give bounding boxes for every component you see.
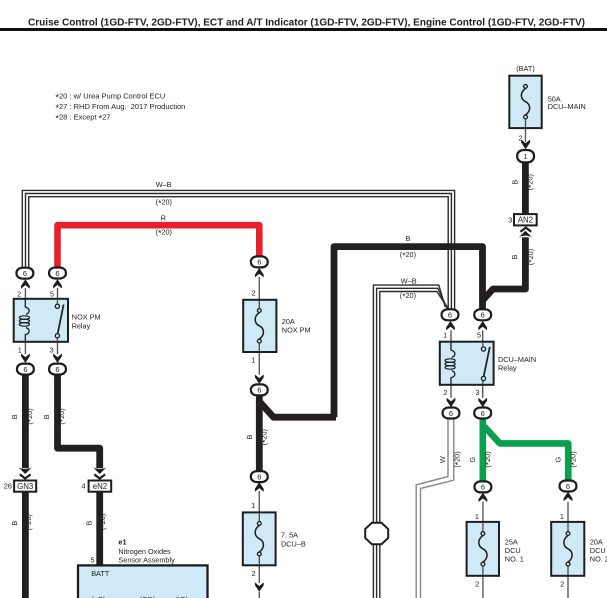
svg-text:3: 3 [475,388,479,397]
connector eN2 [89,481,112,492]
connector oval 6 above NOX PM pin2 [17,268,34,289]
arrow below 7.5A DCU-B fuse [255,582,264,591]
wire B: NOX PM relay pin1 oval down to GN3 [22,374,29,468]
shield octagon on W-B branch [365,523,388,544]
svg-text:(*20): (*20) [483,451,494,467]
svg-text:3: 3 [50,346,54,355]
connector oval 6 above NOX PM pin5 [49,268,66,289]
svg-text:3: 3 [508,215,512,224]
svg-text:B: B [10,521,19,526]
connector oval 6 above 25A DCU NO.1 fuse [475,481,492,502]
svg-text:6: 6 [257,258,261,267]
connector oval 6 below DCU-MAIN pin3 [474,398,491,419]
svg-text:(BAT): (BAT) [516,64,535,73]
svg-text:2: 2 [252,569,256,578]
svg-text:6: 6 [23,365,27,374]
switch [56,299,58,304]
svg-text:B: B [42,414,51,419]
connector oval 1 below 50A fuse [517,140,534,163]
svg-text:1: 1 [524,152,528,161]
fuse 50A DCU-MAIN (BAT) box [509,76,541,129]
svg-text:(*20): (*20) [156,228,172,239]
connector oval 6 at red wire to 20A NOX PM fuse [251,256,268,277]
svg-text:Nitrogen Oxides: Nitrogen Oxides [118,547,171,556]
svg-text:2: 2 [560,580,564,589]
double chevron into AN2 from below [519,228,533,238]
svg-text:W–B: W–B [401,276,417,285]
wire B: 50A fuse oval down to AN2 connector [522,162,529,215]
svg-text:6: 6 [481,483,485,492]
svg-text:5: 5 [91,555,95,564]
wire W-B: NOX PM relay pin2 to DCU-MAIN relay pin1 (triple line loop) [22,190,454,309]
svg-text:(*20): (*20) [452,451,463,467]
wire: 7.5A DCU-B fuse bottom continuation [258,592,260,598]
svg-text:B: B [85,520,94,525]
connector oval 6 above DCU-MAIN pin1 [442,309,459,330]
svg-text:1: 1 [475,512,479,521]
svg-text:B: B [405,234,410,243]
svg-text:6: 6 [481,409,485,418]
svg-text:Relay: Relay [498,363,517,372]
svg-text:6: 6 [55,365,59,374]
wire: 20A DCU NO.2 fuse pin 1 lead [567,502,569,523]
svg-text:6: 6 [566,482,570,491]
svg-text:B: B [245,434,254,439]
svg-text:(*20): (*20) [98,514,109,530]
svg-text:2: 2 [443,388,447,397]
svg-text:NOX PM: NOX PM [282,325,311,334]
svg-text:2: 2 [475,580,479,589]
svg-text:1: 1 [560,512,564,521]
title rule [0,28,607,31]
switch [482,342,484,347]
svg-text:DCU–MAIN: DCU–MAIN [548,102,586,111]
svg-text:eN2: eN2 [93,482,107,491]
svg-text:2: 2 [519,134,523,143]
svg-text:NOX PM: NOX PM [72,313,101,322]
svg-text:G: G [468,456,477,462]
svg-text:W–B: W–B [156,180,172,189]
svg-text:e1: e1 [118,537,126,546]
wire: NOX PM relay pin 5 lead [57,288,59,300]
double chevron into eN2 from above [93,467,107,478]
svg-text:6: 6 [448,311,452,320]
connector GN3 [14,481,36,492]
connector oval 6 below DCU-MAIN pin2 [443,398,460,419]
svg-text:(*20): (*20) [568,451,579,467]
wire: DCU-MAIN relay pin 5 lead [482,330,484,342]
svg-text:2: 2 [252,288,256,297]
svg-text:1: 1 [251,356,255,365]
svg-text:(*20): (*20) [260,429,271,445]
fuse 20A DCU NO.2 box [551,522,584,576]
svg-text:BATT: BATT [91,569,110,578]
svg-text:26: 26 [4,482,12,491]
wire: DCU-MAIN relay pin 1 lead [450,330,452,342]
svg-text:6: 6 [257,472,261,481]
connector oval 6 below NOX PM pin1 [17,354,34,375]
svg-text:6: 6 [55,269,59,278]
svg-text:4: 4 [81,482,85,491]
svg-text:6: 6 [257,386,261,395]
svg-text:G: G [554,456,563,462]
wire: NOX PM relay pin 3 lead [57,341,59,354]
wire G: green branch over to 20A DCU NO.2 [484,427,568,481]
relay NOX PM box [14,299,68,342]
fuse 20A NOX PM box [243,300,276,352]
fuse 25A DCU NO.1 box [467,522,499,576]
svg-text:(*20): (*20) [400,250,416,261]
svg-text:6: 6 [23,269,27,278]
wire: 25A DCU NO.1 fuse pin 1 lead [482,502,484,523]
wire: 50A fuse pin 2 lead [525,128,527,142]
svg-text:6: 6 [449,409,453,418]
connector oval 6 above 20A DCU NO.2 fuse [560,481,577,502]
svg-text:5: 5 [477,330,481,339]
wire R: NOX PM relay pin5 to 20A NOX PM fuse (red) [58,225,260,268]
wire B: thick black bus from junction up across to DCU-MAIN pin5 oval [334,247,483,418]
svg-text:B: B [510,180,519,185]
svg-text:1: 1 [443,330,447,339]
wire: DCU-MAIN relay pin 2 lead [450,384,452,398]
wire B: eN2 down to BATT terminal of Nitrogen Oxides Sensor [96,492,103,567]
svg-text:B: B [510,254,519,259]
svg-text:1: 1 [251,501,255,510]
svg-text:Sensor Assembly: Sensor Assembly [118,556,175,565]
connector oval 6 above 7.5A DCU-B fuse [251,471,268,492]
connector oval 6 below 20A NOX PM fuse [251,375,268,396]
wire: 20A DCU NO.2 fuse pin 2 lead [567,575,569,598]
wire B: GN3 down to page bottom [22,492,29,598]
connector oval 6 below NOX PM pin3 [49,354,66,375]
wire: 7.5A DCU-B fuse pin 2 lead [258,565,260,583]
svg-text:B: B [10,414,19,419]
svg-text:(*20): (*20) [526,174,537,190]
wire: 25A DCU NO.1 fuse pin 2 lead [482,575,484,598]
svg-text:NO. 1: NO. 1 [505,555,524,564]
svg-text:DCU–B: DCU–B [281,539,306,548]
relay DCU-MAIN box [440,342,494,385]
wire B: AN2 connector down and over to DCU-MAIN pin5 [483,237,526,300]
svg-text:Relay: Relay [72,321,91,330]
svg-text:AN2: AN2 [518,216,533,225]
wire: 20A NOX PM fuse pin 1 lead [258,352,260,375]
connector oval 6 above DCU-MAIN pin5 [474,309,491,330]
svg-text:(*20): (*20) [526,249,537,265]
connector AN2 [514,214,537,225]
svg-text:(*20): (*20) [400,291,416,302]
coil [451,342,455,357]
wire: DCU-MAIN relay pin 3 lead [482,384,484,398]
component e1 Nitrogen Oxides Sensor Assembly (BATT box) [78,565,208,598]
double chevron into GN3 from above [18,467,32,478]
wire: NOX PM relay pin 2 lead [24,288,26,300]
svg-text:6: 6 [481,311,485,320]
wire: 7.5A DCU-B fuse pin 1 lead [258,491,260,513]
svg-text:NO. 2: NO. 2 [590,555,607,564]
svg-text:(*20): (*20) [156,197,172,208]
wire B: NOX PM relay pin3 oval down, jog right, to eN2 [58,374,100,468]
svg-text:R: R [161,214,166,223]
wire W-B: shielded branch from DCU-MAIN pin1 down through octagon (triple line) [373,285,449,598]
wire: NOX PM relay pin 1 lead [24,341,26,354]
svg-text:Cruise Control (1GD-FTV, 2GD-F: Cruise Control (1GD-FTV, 2GD-FTV), ECT a… [28,17,585,28]
coil [25,299,29,314]
fuse 7.5A DCU-B box [243,512,276,565]
wire G: DCU-MAIN pin3 down to 25A DCU NO.1 (green) [479,418,486,482]
svg-text:2: 2 [17,290,21,299]
wire B: red oval junction down to 7.5A DCU-B oval [256,395,263,471]
svg-text:GN3: GN3 [17,482,33,491]
wire: 20A NOX PM fuse pin 2 lead [258,277,260,301]
wire B: branch from 20A NOX PM fuse bottom to bus [260,403,336,418]
svg-text:1: 1 [18,346,22,355]
wire W: DCU-MAIN relay pin2 down (double gray line) [416,417,454,598]
svg-text:5: 5 [50,290,54,299]
svg-text:W: W [438,456,447,463]
